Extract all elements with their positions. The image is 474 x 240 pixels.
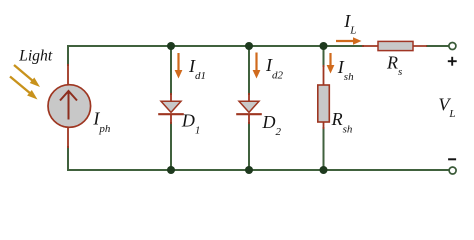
current arrow I_sh (327, 53, 335, 74)
label minus (448, 158, 456, 160)
wire diode D1 branch (170, 46, 172, 170)
current arrow I_d2 (253, 53, 261, 79)
junction node D1 bottom (167, 166, 175, 174)
svg-text:Iph: Iph (92, 108, 111, 135)
svg-text:Light: Light (18, 47, 53, 64)
svg-text:D2: D2 (262, 112, 282, 138)
junction node Rsh top (320, 42, 328, 50)
current source I_ph (48, 64, 91, 148)
label plus (448, 57, 457, 66)
junction node D1 top (167, 42, 175, 50)
svg-text:VL: VL (438, 95, 455, 120)
junction node Rsh bottom (320, 166, 328, 174)
wire diode D2 branch (248, 46, 250, 170)
current arrow I_L (336, 37, 362, 45)
svg-text:Id2: Id2 (265, 55, 284, 81)
diode D2 (236, 93, 262, 124)
terminal negative (449, 167, 456, 174)
current arrow I_d1 (175, 53, 183, 79)
svg-text:Rs: Rs (386, 52, 402, 77)
wire top bus (67, 45, 364, 47)
wire top right segment (426, 45, 449, 47)
light arrows (10, 65, 40, 100)
wire left branch (68, 46, 70, 170)
junction node D2 top (245, 42, 253, 50)
terminal positive (449, 43, 456, 50)
svg-text:IL: IL (343, 11, 356, 36)
svg-text:Rsh: Rsh (331, 109, 353, 135)
diode D1 (158, 93, 184, 124)
svg-text:Ish: Ish (337, 57, 354, 83)
wire bottom bus (67, 169, 449, 171)
resistor Rs (362, 41, 427, 50)
resistor Rsh (318, 65, 330, 129)
wire Rsh branch (323, 46, 325, 170)
svg-text:D1: D1 (181, 111, 201, 137)
junction node D2 bottom (245, 166, 253, 174)
svg-text:Id1: Id1 (188, 56, 206, 82)
